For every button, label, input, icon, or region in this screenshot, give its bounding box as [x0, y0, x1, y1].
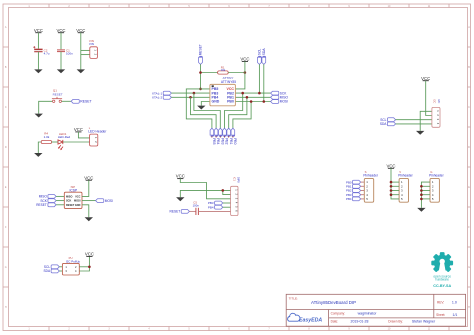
wire: [37, 52, 39, 70]
junction: [420, 185, 423, 188]
wire: [396, 123, 432, 125]
net flag RESET (ICSP): [48, 203, 56, 207]
svg-text:C: C: [468, 106, 470, 109]
wire: [228, 72, 245, 74]
svg-text:PB0: PB0: [227, 100, 234, 104]
wire GND pin: [201, 102, 210, 106]
net flag RESET (DIP): [181, 210, 189, 214]
wire: [361, 194, 365, 196]
junction: [420, 193, 423, 196]
wire: [81, 54, 90, 56]
wire PB3 loop: [194, 93, 220, 128]
svg-text:ATTINY85: ATTINY85: [221, 80, 236, 84]
junction: [189, 96, 192, 99]
svg-text:CC-BY-SA: CC-BY-SA: [433, 284, 451, 288]
wire: [426, 81, 432, 116]
wire: [189, 210, 195, 212]
wire: [391, 168, 399, 199]
wire: [223, 202, 231, 204]
net flag SDA (pullup): [51, 269, 59, 273]
svg-text:ATtiny85DevBoard DIP: ATtiny85DevBoard DIP: [311, 300, 356, 305]
svg-text:PB2: PB2: [225, 138, 229, 144]
wire: [391, 194, 399, 196]
svg-text:RESET: RESET: [53, 92, 63, 96]
port flag PB0 (bottom): [231, 128, 235, 136]
svg-text:D: D: [5, 146, 7, 149]
wire: [421, 182, 430, 208]
svg-text:RESET: RESET: [66, 204, 75, 207]
svg-text:XTAL-2: XTAL-2: [152, 95, 163, 99]
ground: [85, 217, 93, 221]
svg-text:VCC: VCC: [176, 174, 185, 179]
net flag MISO: [48, 195, 56, 199]
wire: [82, 205, 89, 218]
junction: [199, 71, 202, 74]
svg-text:RESET: RESET: [80, 99, 91, 103]
svg-text:ICSP: ICSP: [70, 189, 78, 193]
wire: [396, 119, 432, 121]
svg-text:Company:: Company:: [331, 312, 346, 316]
svg-text:G: G: [468, 266, 470, 269]
wire: [56, 200, 64, 202]
wire: [361, 198, 365, 200]
net flag SCL (I2C header): [387, 118, 395, 122]
capacitor C1 100n: [57, 48, 73, 55]
svg-text:VCC: VCC: [386, 163, 395, 168]
junction: [246, 96, 249, 99]
svg-text:DIP8: DIP8: [237, 177, 240, 183]
wire: [37, 33, 39, 49]
ground: [57, 69, 65, 73]
wire SDA: [263, 64, 265, 101]
header G Pinheader (1x5): [429, 170, 444, 202]
connector DIP8 socket (6-pin): [231, 177, 240, 216]
svg-text:I2C PullUp: I2C PullUp: [66, 260, 81, 264]
header ICSP (2x3): [64, 185, 82, 208]
resistor R1 10k: [218, 66, 229, 75]
wire: [361, 190, 365, 192]
svg-text:Stefan Wagner: Stefan Wagner: [412, 320, 436, 324]
wire PB4 row: [171, 96, 210, 98]
junction: [390, 181, 393, 184]
svg-text:Sheet:: Sheet:: [436, 313, 445, 317]
port flag RESET (top): [199, 56, 203, 64]
capacitor C2 4.7u: [33, 46, 50, 55]
wire GND to pin1: [180, 190, 230, 197]
svg-text:EasyEDA: EasyEDA: [299, 318, 322, 324]
wire pin1 to ground: [420, 111, 432, 131]
svg-text:TITLE:: TITLE:: [289, 297, 298, 301]
wire: [421, 190, 430, 192]
wire: [391, 185, 399, 187]
wire: [79, 266, 89, 268]
svg-text:SDA: SDA: [380, 122, 387, 126]
svg-text:Drawn By:: Drawn By:: [388, 320, 403, 324]
wire: [80, 33, 82, 70]
svg-text:VCC: VCC: [74, 127, 83, 132]
wire: [421, 198, 430, 200]
port flag SCL (top): [258, 56, 262, 64]
wire: [361, 181, 365, 183]
wire: [56, 204, 64, 206]
OSHW logo: [431, 252, 453, 288]
connector VIN (2-pin): [89, 39, 98, 59]
wire: [52, 141, 58, 143]
svg-text:wagiminator: wagiminator: [358, 312, 378, 316]
wire: [391, 181, 399, 183]
svg-text:H: H: [468, 306, 470, 309]
resistor network PU I2C PullUp: [62, 256, 80, 275]
svg-text:PB1: PB1: [229, 138, 233, 144]
svg-text:RESET: RESET: [36, 203, 47, 207]
ground: [34, 69, 42, 73]
port flag PB3 (bottom): [219, 128, 223, 136]
junction: [250, 100, 253, 103]
svg-text:SCL: SCL: [258, 49, 262, 56]
junction: [420, 189, 423, 192]
svg-text:MOSI: MOSI: [280, 100, 288, 104]
port flag PB5 (bottom): [210, 128, 214, 136]
ground (DIP socket): [176, 197, 184, 201]
svg-text:RESET: RESET: [170, 210, 181, 214]
net flag XTAL-1: [163, 91, 171, 95]
ground (I2C header): [416, 131, 424, 135]
wire: [59, 266, 62, 268]
wire PB2 row: [235, 92, 270, 94]
svg-text:PB0: PB0: [233, 138, 237, 144]
wire: [421, 185, 430, 187]
wire: [82, 200, 96, 202]
svg-text:100n: 100n: [193, 203, 200, 207]
svg-text:VCC: VCC: [76, 28, 85, 33]
wire: [391, 190, 399, 192]
net flag MISO (MCU): [271, 95, 279, 99]
wire: [60, 52, 62, 70]
svg-text:10k: 10k: [221, 68, 226, 72]
wire: [60, 33, 62, 50]
wire: [62, 100, 72, 102]
ground: [77, 69, 85, 73]
wire: [223, 206, 231, 208]
ground (G header): [417, 208, 425, 212]
junction: [88, 266, 91, 269]
wire: [39, 101, 53, 113]
port flag PB2 (bottom): [223, 128, 227, 136]
svg-text:D: D: [468, 146, 470, 149]
svg-text:GND: GND: [75, 204, 81, 207]
svg-text:SCK: SCK: [66, 200, 71, 203]
net flag SCL (pullup): [51, 265, 59, 269]
svg-text:MOSI: MOSI: [74, 200, 81, 203]
EasyEDA logo: [288, 313, 300, 321]
junction: [390, 193, 393, 196]
net flag SCK: [271, 91, 279, 95]
wire: [201, 72, 218, 74]
wire SCL: [258, 64, 260, 93]
svg-text:PB4: PB4: [208, 205, 214, 209]
LED LED1 LED-Red: [58, 132, 71, 150]
wire: [79, 256, 89, 271]
svg-text:Pinheader: Pinheader: [398, 174, 413, 178]
title block: [286, 294, 465, 326]
svg-text:I2C: I2C: [433, 99, 436, 103]
svg-text:REV:: REV:: [437, 300, 444, 304]
net flag PB4 (S header): [353, 197, 361, 201]
junction: [390, 185, 393, 188]
connector LED Header (2-pin): [88, 126, 107, 146]
wire PB4 loop: [191, 97, 217, 128]
wire: [56, 195, 64, 197]
wire: [235, 61, 245, 89]
wire: [361, 185, 365, 187]
wire PB0 row: [235, 101, 270, 103]
junction: [258, 92, 261, 95]
svg-text:VCC: VCC: [34, 28, 43, 33]
wire: [81, 49, 90, 51]
svg-text:1.0k: 1.0k: [44, 135, 50, 139]
svg-text:VCC: VCC: [85, 252, 94, 257]
wire PB0 loop: [233, 102, 251, 129]
svg-text:1/1: 1/1: [453, 313, 458, 317]
port flag PB1 (bottom): [227, 128, 231, 136]
svg-text:2019-01-28: 2019-01-28: [351, 320, 369, 324]
ground: [34, 153, 42, 157]
wire VCC to pin3: [180, 179, 230, 199]
wire PB1 loop: [229, 97, 247, 128]
svg-text:IC1: IC1: [232, 177, 235, 182]
svg-text:LED-Red: LED-Red: [58, 135, 71, 139]
svg-text:Pinheader: Pinheader: [363, 174, 378, 178]
svg-text:GND: GND: [212, 100, 220, 104]
header V Pinheader (1x5): [398, 170, 413, 202]
net flag PB3 (DIP): [215, 201, 223, 205]
wire: [63, 141, 90, 143]
wire PB3 row: [171, 92, 210, 94]
svg-text:PB4: PB4: [346, 197, 352, 201]
svg-text:RESET: RESET: [199, 44, 203, 55]
wire PB1 row: [235, 96, 270, 98]
svg-text:Pinheader: Pinheader: [429, 174, 444, 178]
svg-text:1.0: 1.0: [452, 301, 457, 305]
junction: [241, 92, 244, 95]
net flag PB1 (S header): [353, 184, 361, 188]
net flag PB0 (S header): [353, 180, 361, 184]
wire: [82, 180, 89, 196]
wire: [421, 194, 430, 196]
svg-text:VCC: VCC: [84, 175, 93, 180]
op-amp/IC U1 ATTINY85: [210, 76, 236, 106]
wire: [59, 270, 62, 272]
svg-text:VCC: VCC: [56, 28, 65, 33]
net flag SCK: [48, 199, 56, 203]
junction: [390, 189, 393, 192]
svg-text:SDA: SDA: [262, 48, 266, 56]
net flag PB4 (DIP): [215, 205, 223, 209]
svg-text:C: C: [5, 106, 7, 109]
svg-text:100n: 100n: [66, 51, 73, 55]
wire GND to pin2: [223, 190, 231, 194]
net flag SDA (I2C header): [387, 122, 395, 126]
svg-text:SDA: SDA: [44, 269, 51, 273]
port flag SDA (top): [262, 56, 266, 64]
port flag PB4 (bottom): [214, 128, 218, 136]
svg-text:VCC: VCC: [421, 76, 430, 81]
header S Pinheader (1x5): [363, 170, 378, 202]
wire: [198, 210, 230, 212]
net flag PB2 (S header): [353, 189, 361, 193]
header I2C (1x4): [432, 99, 440, 127]
junction: [222, 189, 225, 192]
junction: [244, 71, 247, 74]
wire PB2 loop: [225, 93, 243, 128]
svg-text:PB3: PB3: [220, 138, 224, 144]
svg-text:LED Header: LED Header: [88, 130, 107, 134]
svg-text:G: G: [5, 266, 7, 269]
net flag RESET: [71, 99, 79, 103]
wire: [78, 132, 89, 138]
net flag MOSI: [96, 199, 104, 203]
svg-text:VIN: VIN: [89, 42, 94, 46]
wire: [200, 64, 202, 89]
svg-text:MISO: MISO: [66, 196, 72, 199]
svg-text:hardware: hardware: [436, 278, 450, 282]
svg-text:PB5: PB5: [212, 138, 216, 144]
net flag MOSI (MCU): [271, 100, 279, 104]
svg-text:VCC: VCC: [75, 196, 80, 199]
resistor R4 1.0k: [41, 132, 51, 144]
switch Q1 RESET: [52, 89, 63, 103]
svg-text:4.7u: 4.7u: [44, 51, 50, 55]
junction: [199, 88, 202, 91]
svg-text:Date:: Date:: [331, 320, 339, 324]
ground: [35, 114, 43, 118]
wire: [38, 142, 41, 153]
svg-text:VCC: VCC: [240, 57, 249, 62]
capacitor C5 100n: [193, 200, 200, 215]
junction: [193, 92, 196, 95]
ground (MCU): [197, 106, 205, 110]
svg-text:I2C: I2C: [437, 99, 440, 103]
svg-text:MOSI: MOSI: [105, 199, 113, 203]
net flag PB3 (S header): [353, 193, 361, 197]
wire PB5 row: [186, 89, 212, 128]
svg-text:H: H: [5, 306, 7, 309]
junction: [263, 100, 266, 103]
junction: [420, 198, 423, 201]
svg-text:PB4: PB4: [216, 138, 220, 144]
net flag XTAL-2: [163, 95, 171, 99]
